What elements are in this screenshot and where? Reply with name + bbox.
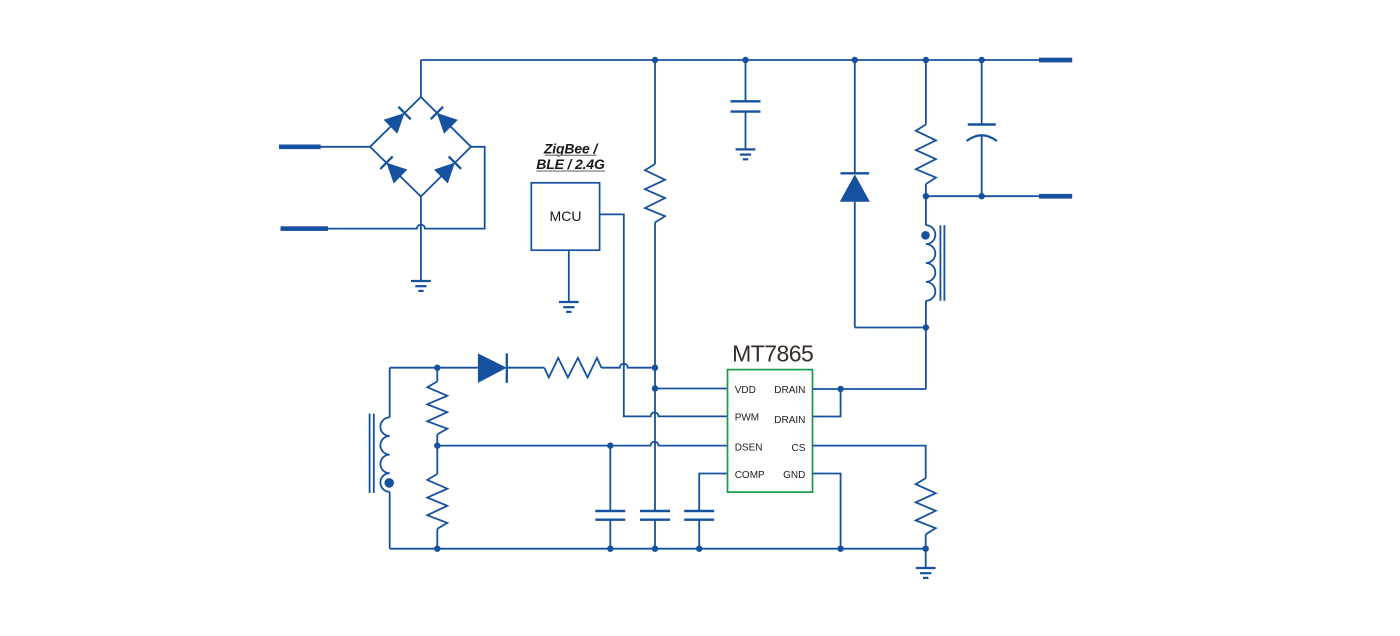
wire DRAIN pin row: [813, 388, 926, 390]
wire COMP capacitor to rail: [698, 520, 700, 549]
svg-text:VDD: VDD: [735, 385, 756, 396]
junction top rail x=925.9: [923, 57, 929, 63]
ground bottom right: [916, 568, 936, 578]
bridge diode top-left: [384, 106, 412, 134]
resistor CS sense: [916, 478, 936, 534]
svg-text:DRAIN: DRAIN: [774, 415, 805, 426]
junction divider mid: [434, 442, 440, 448]
transformer primary core: [939, 225, 941, 301]
bridge rectifier diamond: [370, 97, 471, 197]
junction bottom rail x=610: [607, 546, 613, 552]
wire resistor to node VDD (with hop over MCU wire): [601, 364, 655, 368]
wire bridge bottom to ground: [420, 197, 422, 282]
wire main vertical lower: [654, 223, 656, 512]
resistor divider upper (x=437): [427, 368, 447, 446]
pin labels right: [774, 385, 805, 481]
svg-text:ZigBee /: ZigBee /: [543, 140, 600, 156]
wire DSEN row (with hop at main vertical): [437, 442, 727, 446]
capacitor output (polarized, x=982): [967, 60, 997, 196]
diode secondary rectifier: [478, 353, 544, 383]
svg-text:MT7865: MT7865: [732, 341, 813, 367]
svg-text:DRAIN: DRAIN: [774, 385, 805, 396]
phase dot secondary: [384, 478, 394, 488]
wire bridge top stem: [420, 60, 422, 97]
svg-text:CS: CS: [791, 443, 805, 454]
wire CS resistor to rail: [925, 534, 927, 548]
junction node VDD top: [652, 365, 658, 371]
ground below input capacitor: [736, 149, 756, 159]
wire DRAIN2 pin: [813, 389, 841, 417]
wire GND pin to rail: [813, 474, 841, 549]
junction top rail x=655: [652, 57, 658, 63]
junction bottom rail x=926: [923, 546, 929, 552]
junction output row x=981.7: [979, 193, 985, 199]
resistor snubber (x=926): [916, 60, 936, 196]
wire DRAIN right vertical: [925, 328, 927, 390]
wire secondary top row: [390, 367, 478, 369]
ground below MCU: [559, 302, 579, 312]
bridge diode bottom-right: [434, 156, 462, 184]
junction bottom rail x=437: [434, 546, 440, 552]
junction top rail x=745.5: [742, 57, 748, 63]
wire top rail: [421, 59, 1042, 61]
transformer secondary core: [369, 414, 371, 493]
wire terminal2 to bridge right corner (with hop): [328, 147, 485, 229]
wire terminal1 to bridge: [320, 146, 370, 148]
transformer primary winding: [926, 196, 935, 327]
pin labels left: [735, 385, 765, 481]
wire CS pin to resistor: [813, 446, 926, 479]
IC U1 MT7865 body: [728, 370, 813, 493]
capacitor COMP: [684, 511, 714, 520]
ground below bridge: [411, 281, 431, 291]
junction bottom rail x=655: [652, 546, 658, 552]
capacitor input filter (x=745.5): [731, 60, 761, 149]
junction node VDD pin: [652, 385, 658, 391]
svg-text:COMP: COMP: [735, 470, 765, 481]
junction bottom rail x=699: [696, 546, 702, 552]
bridge diode bottom-left: [380, 156, 408, 184]
capacitor VDD (x=655): [640, 511, 670, 549]
junction DRAIN: [837, 386, 843, 392]
DC output terminal 2: [1039, 194, 1072, 199]
transformer secondary winding: [380, 368, 389, 549]
wire bottom rail: [390, 548, 926, 550]
junction top rail x=854.8: [852, 57, 858, 63]
wire COMP pin to capacitor: [699, 474, 727, 512]
junction bottom rail x=840: [837, 546, 843, 552]
wire main vertical upper (rail to resistor): [654, 60, 656, 164]
MCU block box: [531, 183, 599, 250]
diode snubber (x=855): [840, 60, 926, 328]
wire MCU bottom to ground: [568, 250, 570, 302]
capacitor DSEN (x=610): [595, 446, 625, 549]
junction DSEN cap: [607, 442, 613, 448]
underline heading line2: [536, 170, 605, 172]
wire MCU output to PWM pin (with hop over node VDD vertical): [600, 214, 728, 416]
junction output row x=925.9: [923, 193, 929, 199]
svg-text:BLE / 2.4G: BLE / 2.4G: [536, 156, 605, 172]
junction primary bottom: [923, 324, 929, 330]
wire ground stem bottom right: [925, 549, 927, 568]
wire VDD pin: [655, 388, 728, 390]
label ZigBee / BLE / 2.4G heading: [536, 140, 605, 172]
resistor VDD series (horizontal): [544, 358, 601, 378]
phase dot primary: [921, 231, 930, 240]
svg-text:MCU: MCU: [550, 208, 582, 224]
bridge diode top-right: [430, 106, 458, 134]
svg-text:PWM: PWM: [735, 413, 759, 424]
AC input terminal 2: [281, 226, 329, 231]
underline heading line1: [545, 154, 597, 156]
DC output terminal 1: [1039, 58, 1072, 63]
junction secondary top left: [434, 365, 440, 371]
svg-text:GND: GND: [783, 470, 805, 481]
junction top rail x=981.7: [979, 57, 985, 63]
wire output row: [926, 195, 1042, 197]
AC input terminal 1: [279, 145, 321, 150]
resistor divider lower (x=437): [427, 446, 447, 549]
resistor startup (vertical at x=655): [645, 164, 665, 223]
svg-text:DSEN: DSEN: [735, 442, 763, 453]
